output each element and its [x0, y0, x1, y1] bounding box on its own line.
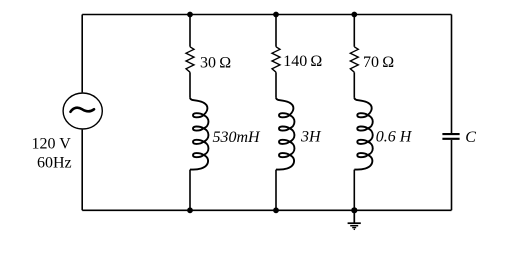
svg-text:70 Ω: 70 Ω	[363, 54, 394, 71]
svg-text:60Hz: 60Hz	[37, 155, 72, 172]
svg-text:30 Ω: 30 Ω	[200, 54, 231, 71]
svg-text:0.6 H: 0.6 H	[376, 128, 413, 145]
svg-text:530mH: 530mH	[213, 129, 262, 146]
svg-text:140 Ω: 140 Ω	[283, 53, 322, 70]
svg-text:C: C	[465, 129, 476, 146]
svg-text:120 V: 120 V	[32, 136, 72, 153]
svg-text:3H: 3H	[300, 128, 322, 145]
